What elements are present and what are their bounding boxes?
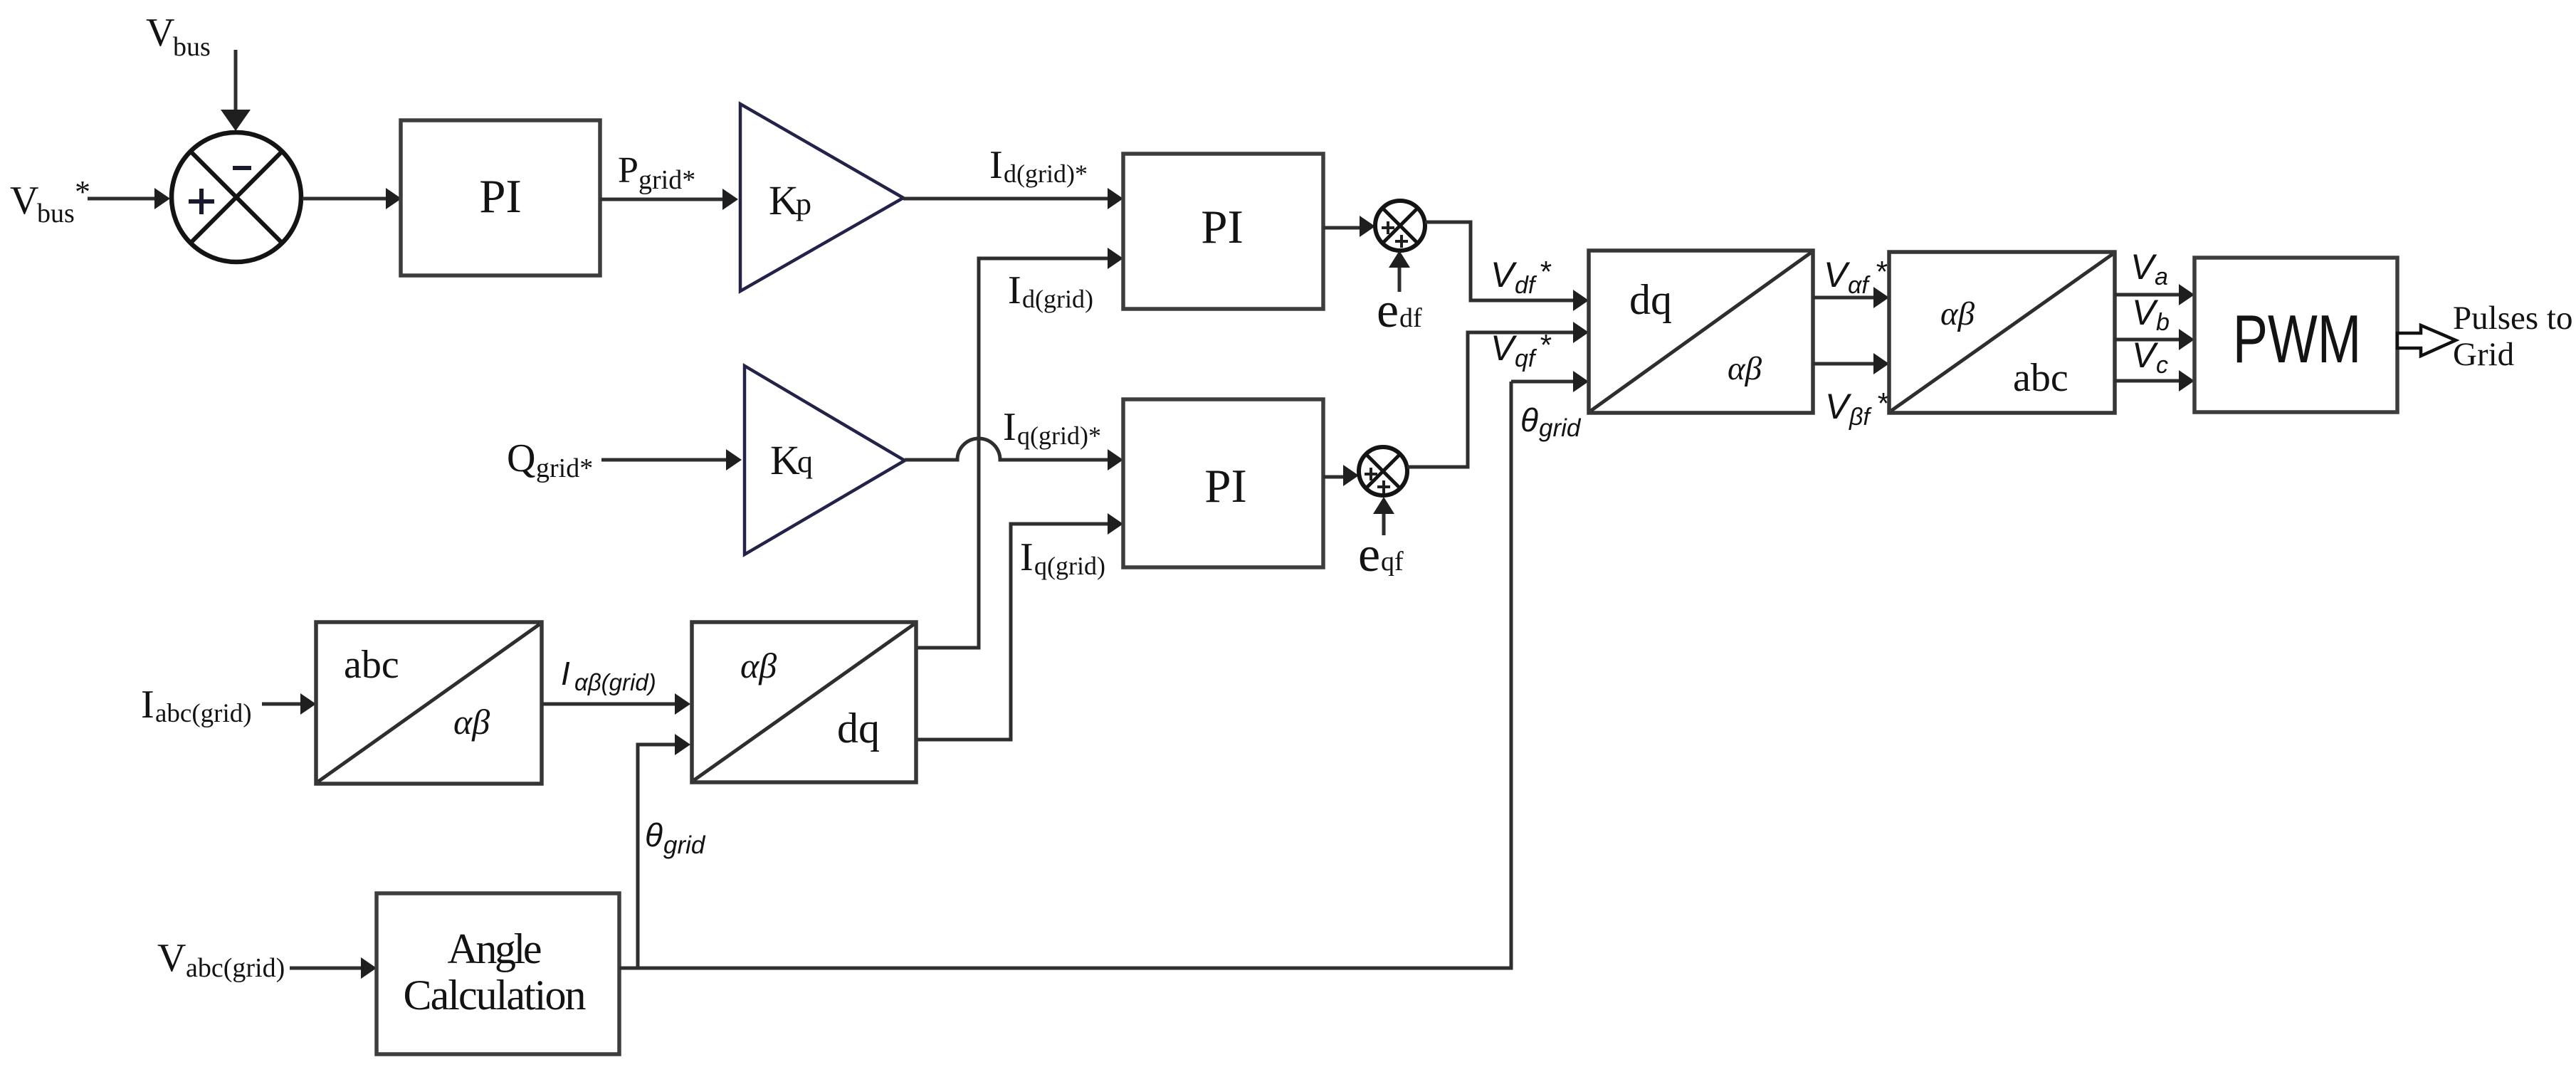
svg-text:e: e bbox=[1377, 283, 1399, 338]
svg-text:V: V bbox=[1825, 387, 1852, 426]
svg-text:V: V bbox=[2132, 293, 2159, 332]
label Ialphabeta(grid) bbox=[561, 655, 656, 695]
wire theta grid long from Angle Calculation to dq block bbox=[619, 382, 1511, 968]
summing junction S2 bbox=[1375, 201, 1425, 251]
svg-text:θ: θ bbox=[645, 816, 663, 853]
wire Vc bbox=[2115, 370, 2194, 391]
svg-text:αβ(grid): αβ(grid) bbox=[574, 669, 656, 695]
wire Vdf* from S2 to dq block bbox=[1425, 222, 1589, 311]
label Vqf* bbox=[1491, 328, 1552, 372]
svg-text:I: I bbox=[561, 655, 570, 692]
svg-text:αβ: αβ bbox=[1728, 350, 1762, 387]
wire Vabc(grid) input arrow bbox=[290, 957, 377, 979]
wire S1 to PI1 bbox=[303, 188, 401, 209]
label Valphaf* bbox=[1824, 255, 1888, 299]
svg-text:αβ: αβ bbox=[740, 646, 777, 685]
plus signs in S3 bbox=[1365, 468, 1390, 493]
svg-text:I: I bbox=[141, 683, 154, 727]
block PWM bbox=[2194, 258, 2397, 412]
svg-text:PI: PI bbox=[1204, 460, 1247, 513]
svg-text:V: V bbox=[1491, 255, 1518, 295]
svg-text:grid: grid bbox=[663, 831, 706, 859]
wire Qgrid* input arrow bbox=[601, 449, 742, 471]
svg-text:bus: bus bbox=[173, 32, 211, 62]
gain Kq bbox=[745, 366, 905, 554]
svg-text:Pulses to: Pulses to bbox=[2453, 300, 2572, 337]
block arrow pulses output bbox=[2397, 325, 2456, 356]
svg-text:dq: dq bbox=[1629, 276, 1672, 323]
svg-text:qf: qf bbox=[1381, 547, 1404, 577]
wire Iq(grid) feedback into PI3 bbox=[916, 513, 1123, 740]
label edf bbox=[1377, 283, 1422, 338]
svg-text:I: I bbox=[989, 143, 1003, 187]
svg-text:K: K bbox=[769, 177, 799, 224]
svg-text:grid*: grid* bbox=[638, 165, 695, 195]
svg-text:Calculation: Calculation bbox=[404, 972, 587, 1019]
label Vabc(grid) bbox=[157, 936, 285, 983]
label Vbus bbox=[146, 11, 211, 62]
svg-text:V: V bbox=[146, 11, 174, 55]
wire PI1 to Kp bbox=[600, 189, 738, 210]
svg-text:d(grid): d(grid) bbox=[1022, 285, 1093, 313]
svg-text:p: p bbox=[796, 186, 811, 221]
svg-text:I: I bbox=[1020, 535, 1034, 579]
svg-text:I: I bbox=[1008, 268, 1021, 312]
minus sign in S1 bbox=[233, 166, 251, 170]
svg-text:dq: dq bbox=[837, 705, 880, 752]
wire Vbus down into summing junction S1 bbox=[221, 50, 251, 131]
wire theta grid into dq block bbox=[1511, 371, 1589, 392]
wire Valphaf* bbox=[1813, 287, 1889, 308]
block alphabeta to abc transform bbox=[1889, 252, 2115, 413]
block PI2 d-axis current controller bbox=[1123, 154, 1323, 309]
summing junction S3 bbox=[1359, 447, 1407, 495]
plus sign in S1 bbox=[189, 189, 214, 214]
svg-text:abc(grid): abc(grid) bbox=[155, 699, 252, 728]
svg-text:αβ: αβ bbox=[453, 702, 490, 742]
svg-text:V: V bbox=[2130, 247, 2157, 287]
svg-text:Grid: Grid bbox=[2453, 336, 2514, 373]
wire Id(grid) feedback into PI2 bbox=[916, 248, 1123, 648]
svg-text:abc(grid): abc(grid) bbox=[186, 953, 285, 983]
svg-text:Angle: Angle bbox=[448, 925, 542, 972]
summing junction S1 bbox=[172, 132, 301, 262]
svg-text:q(grid)*: q(grid)* bbox=[1017, 421, 1101, 450]
svg-text:V: V bbox=[10, 179, 38, 223]
wire Vbus* input arrow bbox=[88, 188, 170, 209]
svg-text:Q: Q bbox=[507, 436, 535, 480]
wire Vbetaf* bbox=[1813, 353, 1889, 374]
svg-text:I: I bbox=[1003, 405, 1016, 449]
svg-text:V: V bbox=[157, 936, 186, 980]
wire Kq to PI3 with hop over Id wire bbox=[905, 438, 1123, 471]
svg-text:*: * bbox=[75, 174, 90, 209]
wire PI2 to summing junction S2 bbox=[1323, 216, 1375, 237]
svg-text:grid: grid bbox=[1539, 414, 1582, 442]
svg-text:θ: θ bbox=[1520, 401, 1538, 438]
block PI1 voltage controller bbox=[401, 120, 600, 275]
label Vbetaf* bbox=[1825, 387, 1889, 431]
svg-text:PI: PI bbox=[1201, 201, 1244, 253]
label Qgrid* bbox=[507, 436, 593, 483]
svg-text:V: V bbox=[1824, 255, 1851, 295]
label Iq(grid) bbox=[1020, 535, 1105, 580]
wire Iabc(grid) input arrow bbox=[262, 693, 316, 715]
svg-text:abc: abc bbox=[2013, 356, 2068, 400]
label Vb bbox=[2132, 293, 2170, 336]
svg-text:e: e bbox=[1358, 527, 1380, 582]
wire Vb bbox=[2115, 329, 2194, 350]
svg-text:q: q bbox=[797, 444, 813, 479]
label Pulses to Grid bbox=[2453, 300, 2572, 373]
svg-text:d(grid)*: d(grid)* bbox=[1004, 159, 1088, 188]
label Iabc(grid) bbox=[141, 683, 252, 728]
label Vbus* bbox=[10, 174, 90, 228]
svg-text:*: * bbox=[1539, 255, 1552, 288]
block Angle Calculation bbox=[377, 893, 619, 1054]
wire theta branch into alphabeta-dq block bbox=[638, 734, 690, 968]
block alphabeta to dq transform bbox=[692, 622, 916, 782]
label Id(grid)* bbox=[989, 143, 1088, 188]
label theta grid lower bbox=[645, 816, 706, 859]
svg-text:V: V bbox=[2132, 335, 2159, 375]
block abc to alphabeta transform bbox=[316, 622, 542, 784]
svg-text:abc: abc bbox=[344, 643, 399, 687]
svg-text:grid*: grid* bbox=[536, 453, 593, 483]
wire Ialphabeta(grid) bbox=[542, 693, 690, 715]
label eqf bbox=[1358, 527, 1404, 582]
label Iq(grid)* bbox=[1003, 405, 1101, 450]
label Va bbox=[2130, 247, 2168, 290]
block dq to alphabeta transform bbox=[1589, 251, 1813, 413]
label Pgrid* bbox=[618, 150, 695, 195]
svg-text:K: K bbox=[770, 437, 800, 483]
label Id(grid) bbox=[1008, 268, 1093, 313]
wire Va bbox=[2115, 284, 2194, 305]
wire Vqf* from S3 to dq block bbox=[1407, 322, 1589, 467]
svg-text:αβ: αβ bbox=[1940, 295, 1975, 332]
label Vc bbox=[2132, 335, 2168, 379]
gain Kp bbox=[740, 104, 903, 291]
svg-text:a: a bbox=[2155, 263, 2168, 290]
svg-text:q(grid): q(grid) bbox=[1034, 552, 1105, 580]
svg-text:qf: qf bbox=[1515, 345, 1537, 372]
svg-text:V: V bbox=[1491, 328, 1518, 368]
wire PI3 to summing junction S3 bbox=[1323, 465, 1359, 486]
svg-text:bus: bus bbox=[37, 199, 75, 228]
svg-text:PWM: PWM bbox=[2233, 301, 2362, 378]
label theta grid upper bbox=[1520, 401, 1582, 442]
wire Kp to PI2 bbox=[903, 188, 1123, 209]
block PI3 q-axis current controller bbox=[1123, 399, 1323, 567]
label Vdf* bbox=[1491, 255, 1552, 299]
svg-text:βf: βf bbox=[1849, 404, 1872, 431]
svg-text:P: P bbox=[618, 150, 638, 191]
wire eqf arrow into S3 bbox=[1373, 497, 1394, 535]
svg-text:df: df bbox=[1515, 272, 1537, 299]
svg-text:αf: αf bbox=[1848, 272, 1871, 299]
svg-text:*: * bbox=[1539, 328, 1552, 362]
svg-text:PI: PI bbox=[479, 170, 522, 223]
svg-text:b: b bbox=[2156, 309, 2170, 336]
svg-text:df: df bbox=[1399, 303, 1422, 333]
svg-text:c: c bbox=[2156, 352, 2168, 379]
plus signs in S2 bbox=[1382, 221, 1408, 248]
wire edf arrow into S2 bbox=[1389, 251, 1410, 292]
svg-text:*: * bbox=[1875, 255, 1888, 288]
